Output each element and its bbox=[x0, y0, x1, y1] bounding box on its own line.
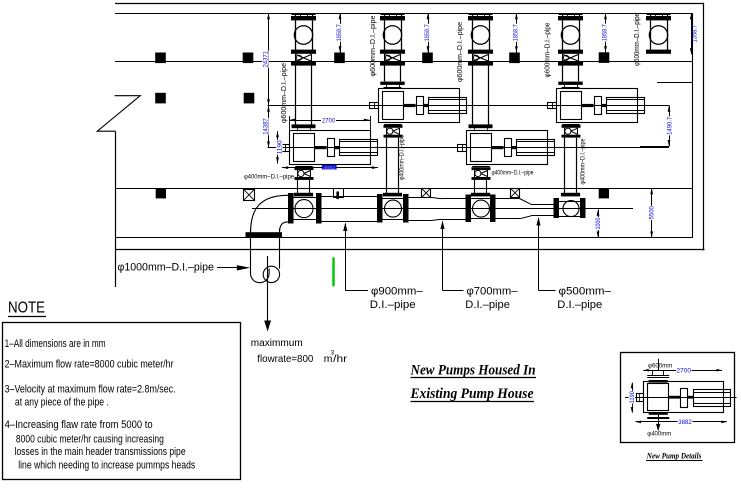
inlet pipe assembly at x=303.5 bbox=[291, 13, 316, 66]
svg-text:D.I.–pipe: D.I.–pipe bbox=[557, 299, 602, 311]
pipe drop 2 upper bbox=[384, 66, 386, 82]
inlet pipe assembly at x=658.5 bbox=[646, 13, 671, 54]
svg-text:φ600mm–D.I.–pipe: φ600mm–D.I.–pipe bbox=[279, 63, 288, 123]
svg-text:maximmum: maximmum bbox=[251, 338, 303, 349]
dimension 1858.7 d bbox=[605, 13, 607, 52]
column row2 x=249 bbox=[244, 93, 255, 104]
svg-text:φ400mm: φ400mm bbox=[647, 431, 671, 438]
leader phi900 pipe bbox=[343, 223, 423, 311]
wall line top inner bbox=[115, 13, 693, 15]
svg-text:D.I.–pipe: D.I.–pipe bbox=[370, 299, 416, 311]
svg-text:φ700mm–: φ700mm– bbox=[467, 286, 518, 298]
detail dim 3882 bbox=[636, 419, 727, 426]
pipe drop 4 lower bbox=[564, 138, 566, 193]
dimension 5500 bbox=[651, 188, 653, 238]
svg-text:New Pumps Housed In: New Pumps Housed In bbox=[410, 362, 536, 378]
title existing pump house bbox=[410, 386, 534, 402]
svg-text:φ600mm: φ600mm bbox=[648, 362, 672, 369]
svg-text:24371: 24371 bbox=[263, 51, 270, 68]
svg-text:line which needing to increase: line which needing to increase pummps he… bbox=[18, 460, 195, 472]
svg-text:φ400mm–D.I.–pipe: φ400mm–D.I.–pipe bbox=[492, 169, 534, 176]
svg-text:4–Increasing flaw rate from 50: 4–Increasing flaw rate from 5000 to bbox=[5, 419, 153, 431]
header centreline bbox=[252, 208, 633, 210]
pump axis line upper bbox=[268, 105, 644, 107]
pipe drop 2 lower bbox=[386, 138, 388, 193]
svg-text:φ600mm–D.I.–pipe: φ600mm–D.I.–pipe bbox=[455, 22, 464, 82]
column row1 x=160.5 bbox=[155, 53, 166, 64]
pipe drop 4 upper bbox=[562, 66, 564, 82]
check valve below pump U2 bbox=[384, 123, 403, 138]
svg-text:losses in the main header tran: losses in the main header transmissions … bbox=[15, 446, 186, 458]
note text bbox=[5, 338, 196, 472]
column row1 x=514.5 bbox=[509, 53, 520, 64]
svg-text:φ1000mm–D.I.–pipe: φ1000mm–D.I.–pipe bbox=[118, 261, 214, 273]
dimension 1858.7 b bbox=[428, 13, 430, 53]
svg-text:φ400mm–D.I.–pipe: φ400mm–D.I.–pipe bbox=[580, 138, 586, 185]
column row1 x=427.5 bbox=[422, 53, 433, 64]
svg-text:Existing Pump House: Existing Pump House bbox=[410, 386, 534, 402]
dimension 1358.7 right bbox=[691, 13, 693, 54]
check valve below pump U3 bbox=[472, 165, 491, 180]
discharge pipe circle bbox=[263, 266, 279, 282]
junction pipe1 to header bbox=[288, 188, 322, 224]
left wall bbox=[115, 131, 117, 287]
note title bbox=[8, 300, 46, 317]
pump U2 (high) bbox=[370, 89, 467, 123]
inlet pipe assembly at x=392.5 bbox=[380, 13, 405, 66]
inlet pipe assembly at x=570.5 bbox=[558, 13, 583, 66]
pump U1 suction flange bbox=[292, 124, 316, 128]
right wall outer bbox=[703, 3, 705, 251]
header elbow bbox=[251, 195, 289, 233]
wall line above header bbox=[115, 188, 693, 190]
svg-text:flowrate=800: flowrate=800 bbox=[257, 354, 313, 365]
valve symbol box right bbox=[511, 188, 520, 197]
new pump details box bbox=[621, 353, 735, 443]
svg-text:1490.7: 1490.7 bbox=[667, 116, 674, 134]
detail title bbox=[646, 451, 703, 460]
column row3 x=161 bbox=[156, 188, 166, 198]
flow arrow down bbox=[264, 256, 271, 332]
svg-text:φ500mm–: φ500mm– bbox=[559, 286, 612, 298]
valve symbol box left bbox=[244, 189, 255, 200]
svg-text:φ400mm–D.I.–pipe: φ400mm–D.I.–pipe bbox=[244, 174, 295, 181]
detail dim 1190 bbox=[629, 383, 636, 413]
pipe drop 3 lower bbox=[474, 180, 476, 193]
svg-text:5500: 5500 bbox=[649, 206, 656, 220]
dimension 1190 pump1 bbox=[277, 131, 279, 163]
dimension 1490.7 bbox=[640, 106, 674, 147]
dimension 1858.7 a bbox=[340, 13, 342, 53]
svg-text:1858.7: 1858.7 bbox=[424, 24, 431, 41]
svg-text:at any piece of the pipe .: at any piece of the pipe . bbox=[15, 396, 109, 408]
wall line below header bbox=[115, 237, 693, 239]
pipe drop 1 upper bbox=[295, 66, 297, 125]
discharge pipe walls bbox=[250, 237, 252, 274]
svg-text:1000: 1000 bbox=[595, 217, 602, 229]
check valve below pump U1 bbox=[295, 165, 314, 180]
right wall inner bbox=[692, 13, 694, 238]
dimension 14387 bbox=[268, 106, 270, 148]
pump U4 suction flange bbox=[558, 82, 582, 85]
title new pumps housed in bbox=[410, 362, 536, 378]
check valve below pump U4 bbox=[562, 123, 581, 138]
wall grid line row1 bbox=[115, 61, 693, 63]
green mark bbox=[332, 257, 334, 286]
pipe support hanger bbox=[334, 189, 344, 200]
note box bbox=[3, 323, 241, 480]
wall step line right of pipe5 bbox=[657, 82, 693, 84]
pump axis line lower bbox=[268, 147, 670, 149]
svg-text:φ400mm–D.I.–pipe: φ400mm–D.I.–pipe bbox=[399, 134, 405, 180]
svg-text:1358.7: 1358.7 bbox=[691, 25, 698, 43]
svg-text:New Pump Details: New Pump Details bbox=[646, 451, 701, 460]
svg-text:NOTE: NOTE bbox=[8, 300, 45, 317]
svg-text:1858.7: 1858.7 bbox=[336, 24, 343, 41]
max flowrate text bbox=[251, 338, 348, 365]
svg-text:φ600mm–D.I.–pipe: φ600mm–D.I.–pipe bbox=[368, 16, 377, 77]
svg-text:1190: 1190 bbox=[277, 140, 284, 154]
pump U1 (low) bbox=[281, 131, 378, 165]
junction pipe3 to header bbox=[466, 188, 496, 222]
detail dim 2700 bbox=[643, 367, 722, 375]
label phi1000 pipe with arrow bbox=[118, 261, 251, 273]
wall break symbol bbox=[97, 96, 140, 132]
header segment phi900 bbox=[322, 196, 378, 198]
svg-text:1190: 1190 bbox=[629, 391, 636, 403]
svg-text:2700: 2700 bbox=[322, 117, 335, 124]
outer wall bottom bbox=[115, 249, 705, 251]
wall line top outer bbox=[115, 3, 704, 5]
pump U3 (low) bbox=[458, 131, 555, 165]
junction pipe4 to header bbox=[554, 188, 586, 218]
svg-text:3882: 3882 bbox=[678, 419, 692, 426]
svg-text:1–All dimensions are in mm: 1–All dimensions are in mm bbox=[5, 338, 106, 350]
svg-text:14387: 14387 bbox=[263, 118, 270, 135]
column row3 x=604 bbox=[599, 188, 609, 198]
junction pipe2 to header bbox=[377, 188, 409, 223]
svg-text:1858.7: 1858.7 bbox=[602, 24, 609, 41]
dimension 1000 bbox=[598, 210, 600, 238]
header segment phi700b + reducer to phi500 bbox=[496, 199, 554, 219]
detail pump drawing bbox=[625, 359, 737, 432]
svg-text:φ900mm–: φ900mm– bbox=[371, 286, 423, 298]
svg-text:2–Maximum flow rate=8000 cubic: 2–Maximum flow rate=8000 cubic meter/hr bbox=[5, 359, 174, 371]
pump U3 suction flange bbox=[469, 124, 493, 128]
leader phi700 pipe bbox=[440, 221, 517, 311]
svg-text:D.I.–pipe: D.I.–pipe bbox=[465, 299, 510, 311]
svg-text:φ600mm–D.I.–pipe: φ600mm–D.I.–pipe bbox=[543, 23, 552, 78]
column row1 x=248 bbox=[243, 53, 254, 64]
dimension 24371 bbox=[268, 13, 270, 106]
inlet pipe assembly at x=480.5 bbox=[468, 13, 493, 66]
svg-text:2700: 2700 bbox=[676, 367, 691, 374]
pump U2 suction flange bbox=[380, 82, 404, 85]
dimension 2700 pump1 bbox=[289, 116, 371, 131]
discharge pipe U bend bbox=[251, 269, 270, 283]
discharge flange bbox=[246, 232, 283, 237]
column row1 x=339.5 bbox=[334, 53, 345, 64]
header segment phi900b + reducer to phi700 bbox=[409, 197, 466, 220]
svg-text:3–Velocity at maximum flow rat: 3–Velocity at maximum flow rate=2.8m/sec… bbox=[5, 384, 176, 396]
pipe drop 1 lower bbox=[297, 180, 299, 193]
svg-text:1858.7: 1858.7 bbox=[513, 24, 520, 41]
svg-text:/hr: /hr bbox=[333, 354, 348, 365]
svg-text:8000 cubic meter/hr causing in: 8000 cubic meter/hr causing increasing bbox=[16, 434, 164, 446]
column row2 x=160.5 bbox=[155, 93, 166, 104]
dimension 3882 pump1 (highlighted) bbox=[282, 165, 378, 170]
svg-text:φ600mm–D.I.–pipe: φ600mm–D.I.–pipe bbox=[632, 13, 641, 66]
valve symbol box mid bbox=[422, 188, 431, 197]
pipe drop 3 upper bbox=[472, 66, 474, 125]
pump U4 (high) bbox=[548, 89, 645, 123]
leader phi500 pipe bbox=[536, 217, 611, 311]
column row1 x=604 bbox=[599, 52, 610, 63]
dimension 1858.7 c bbox=[516, 13, 518, 53]
svg-text:3882: 3882 bbox=[323, 165, 336, 170]
